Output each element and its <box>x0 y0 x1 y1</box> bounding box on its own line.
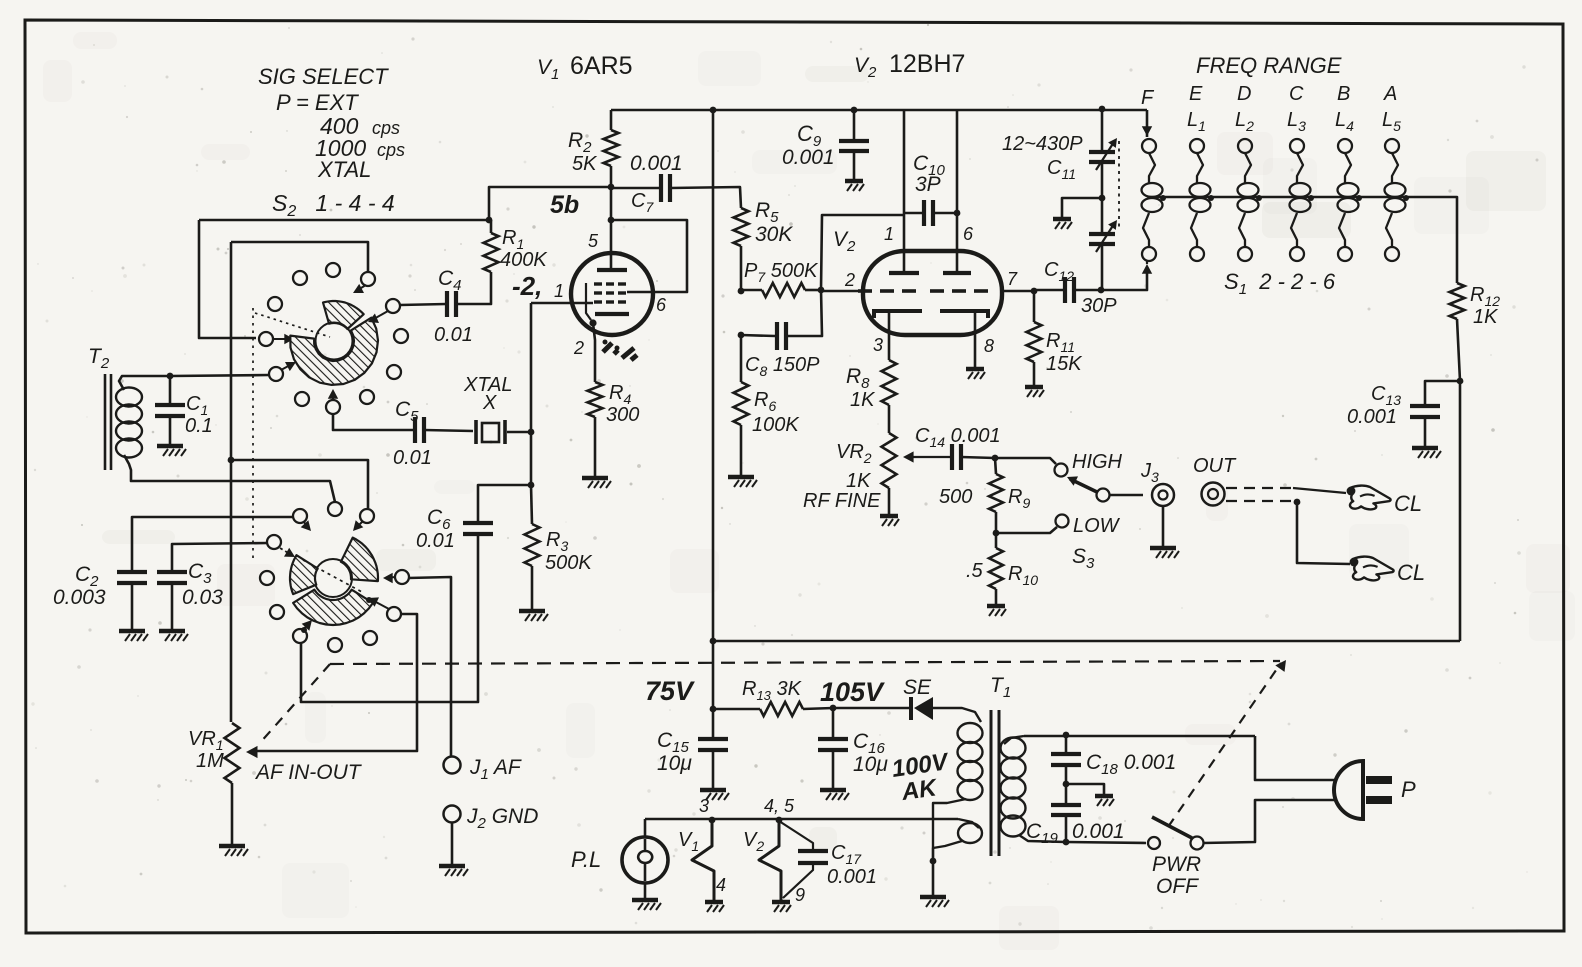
svg-text:5b: 5b <box>550 191 579 219</box>
junction <box>1256 195 1262 201</box>
tube V2 envelope <box>863 251 1002 335</box>
svg-text:1K: 1K <box>846 470 872 492</box>
svg-text:SE: SE <box>903 676 932 699</box>
V1 grid sidebar <box>586 283 591 320</box>
junction <box>709 817 716 824</box>
svg-text:3: 3 <box>699 796 709 816</box>
junction <box>1099 195 1106 202</box>
svg-text:0.001: 0.001 <box>827 866 877 888</box>
junction <box>366 597 372 603</box>
crystal XTAL X <box>474 420 478 444</box>
switch PWR OFF <box>1148 837 1160 849</box>
junction <box>608 184 615 191</box>
junction <box>710 107 717 114</box>
svg-text:12BH7: 12BH7 <box>889 50 965 78</box>
capacitor C15 10u <box>698 737 728 741</box>
T1 filament winding <box>958 819 979 828</box>
resistor R6 100K <box>740 335 743 382</box>
ground <box>1025 385 1043 390</box>
svg-text:C5: C5 <box>395 398 419 425</box>
svg-text:L3: L3 <box>1287 109 1306 134</box>
svg-text:V1: V1 <box>678 829 699 854</box>
junction <box>830 705 837 712</box>
wire pin3 <box>888 311 891 360</box>
wire heater bus <box>645 818 958 821</box>
svg-text:10μ: 10μ <box>853 753 888 776</box>
wire pin7 <box>1002 290 1034 293</box>
svg-text:R5: R5 <box>755 199 779 226</box>
svg-text:C19: C19 <box>1026 820 1059 847</box>
ground <box>157 444 183 449</box>
junction <box>1294 499 1301 506</box>
svg-text:0.01: 0.01 <box>416 530 455 552</box>
junction <box>1160 195 1166 201</box>
junction <box>1063 839 1070 846</box>
svg-text:105V: 105V <box>820 677 885 707</box>
svg-text:.5: .5 <box>966 560 984 582</box>
svg-text:7: 7 <box>1007 269 1018 289</box>
ground <box>845 179 863 184</box>
jack J2 GND <box>444 806 461 823</box>
arrows on S2 lower contacts <box>304 522 308 528</box>
svg-text:C: C <box>1289 83 1304 105</box>
svg-text:S1 2 - 2 - 6: S1 2 - 2 - 6 <box>1224 269 1336 298</box>
jack OUT <box>1202 483 1225 506</box>
svg-text:1K: 1K <box>1473 306 1499 328</box>
svg-text:10μ: 10μ <box>657 752 692 775</box>
arrows on S2 upper contacts <box>356 285 366 291</box>
svg-text:8: 8 <box>984 336 994 356</box>
svg-text:cps: cps <box>377 140 405 160</box>
svg-text:12~430P: 12~430P <box>1002 133 1083 155</box>
svg-text:R11: R11 <box>1046 330 1075 355</box>
svg-text:J1 AF: J1 AF <box>469 756 522 783</box>
wiper arrow VR2 <box>909 456 951 458</box>
svg-text:VR2: VR2 <box>836 441 872 466</box>
wire wiper AF <box>252 614 417 751</box>
wire pin8 + ground <box>974 311 977 367</box>
svg-text:C12: C12 <box>1044 259 1074 284</box>
svg-text:C18 0.001: C18 0.001 <box>1086 751 1176 778</box>
svg-text:OFF: OFF <box>1156 875 1199 898</box>
junction <box>1099 106 1106 113</box>
dotted rotor diagonal <box>303 560 362 592</box>
svg-text:6: 6 <box>656 295 667 315</box>
svg-text:500K: 500K <box>545 552 593 574</box>
svg-text:6: 6 <box>963 224 974 244</box>
ground <box>820 788 846 793</box>
junction <box>710 706 717 713</box>
wire V2 plate1 <box>903 110 906 271</box>
svg-text:X: X <box>482 392 497 414</box>
junction <box>301 627 307 633</box>
svg-text:0.001: 0.001 <box>1072 820 1125 843</box>
svg-text:2: 2 <box>573 338 584 358</box>
rotor S2 upper wedge A <box>323 301 364 329</box>
svg-text:V2: V2 <box>854 54 877 81</box>
svg-text:C6: C6 <box>427 506 451 533</box>
resistor R12 1K <box>1450 283 1465 319</box>
svg-text:J3: J3 <box>1140 460 1159 485</box>
ground <box>700 788 726 793</box>
wire out leads dashed <box>1226 487 1293 489</box>
resistor R10 .5 <box>989 548 1003 589</box>
wire bus to coil F <box>1146 110 1149 137</box>
wire T2 bottom lead <box>124 455 335 502</box>
wire secondary top <box>1024 735 1255 738</box>
junction <box>1403 195 1409 201</box>
handwritten scribble pin7 <box>603 343 637 360</box>
svg-text:C13: C13 <box>1371 383 1401 408</box>
svg-text:A: A <box>1383 83 1397 105</box>
svg-text:0.03: 0.03 <box>182 586 223 609</box>
svg-text:P7 500K: P7 500K <box>744 260 819 285</box>
svg-text:XTAL: XTAL <box>317 157 371 182</box>
svg-text:V2: V2 <box>833 228 856 255</box>
junction <box>992 455 999 462</box>
ground <box>119 629 145 634</box>
junction <box>1208 195 1214 201</box>
V2 plates <box>889 271 919 275</box>
capacitor C10 3P <box>904 212 922 215</box>
junction <box>1031 288 1038 295</box>
wire S2 feed top <box>199 219 489 222</box>
svg-text:0.01: 0.01 <box>434 324 473 346</box>
svg-text:D: D <box>1237 83 1251 105</box>
junction <box>954 210 961 217</box>
svg-text:V2: V2 <box>743 829 764 854</box>
svg-text:3: 3 <box>873 335 883 355</box>
wire secondary bottom to switch <box>1066 842 1146 843</box>
svg-text:CL: CL <box>1397 560 1425 585</box>
capacitor C3 <box>172 543 268 570</box>
resistor R13 3K <box>713 708 760 711</box>
svg-text:FREQ RANGE: FREQ RANGE <box>1196 53 1342 78</box>
svg-text:1: 1 <box>884 224 894 244</box>
junction <box>1457 378 1464 385</box>
junction <box>603 340 608 345</box>
svg-text:1K: 1K <box>850 389 876 411</box>
wire S2 left vertical <box>230 242 233 722</box>
wire coil bus <box>1149 197 1457 283</box>
jack J1 AF <box>444 757 461 774</box>
ground <box>1053 217 1071 222</box>
svg-text:T2: T2 <box>88 345 110 372</box>
svg-text:LOW: LOW <box>1073 515 1121 537</box>
ground <box>920 895 946 900</box>
svg-text:500: 500 <box>939 486 972 508</box>
svg-text:cps: cps <box>372 118 400 138</box>
ground <box>439 864 465 869</box>
junction <box>615 346 620 351</box>
wire V2 plate2 <box>956 110 959 271</box>
tube V1 envelope <box>571 253 653 335</box>
V2 cathodes <box>874 311 922 318</box>
diode SE <box>833 707 909 710</box>
resistor R8 1K <box>882 360 897 405</box>
ground <box>159 629 185 634</box>
svg-text:P = EXT: P = EXT <box>276 90 359 115</box>
svg-text:R13 3K: R13 3K <box>742 678 803 703</box>
junction <box>738 288 745 295</box>
svg-text:L2: L2 <box>1235 109 1254 134</box>
svg-text:R10: R10 <box>1008 563 1038 588</box>
ground <box>705 900 723 905</box>
ground <box>1095 794 1113 799</box>
svg-text:J2 GND: J2 GND <box>466 805 538 832</box>
svg-text:C4: C4 <box>438 267 462 294</box>
V1 plate <box>597 268 627 272</box>
junction <box>486 217 493 224</box>
capacitor C6 <box>478 485 531 521</box>
ground stub <box>1066 784 1104 794</box>
T1 primary winding <box>933 708 981 722</box>
coil L column E <box>1190 139 1204 153</box>
ground <box>772 900 790 905</box>
svg-text:0.001: 0.001 <box>782 146 835 169</box>
svg-text:R8: R8 <box>846 365 870 392</box>
junction <box>930 858 937 865</box>
svg-text:L5: L5 <box>1382 109 1401 134</box>
junction <box>167 373 174 380</box>
ground <box>880 514 898 519</box>
lamp P.L <box>644 819 647 838</box>
junction <box>1098 287 1105 294</box>
T1 secondary winding <box>1004 736 1024 744</box>
svg-text:C17: C17 <box>831 842 862 867</box>
svg-text:1: 1 <box>554 281 564 301</box>
svg-text:4: 4 <box>716 875 726 895</box>
capacitor C14 0.001 <box>950 444 954 470</box>
svg-text:30P: 30P <box>1081 295 1117 317</box>
coil L column C <box>1290 139 1304 153</box>
gang dotted line <box>252 308 254 560</box>
svg-text:1M: 1M <box>196 750 224 772</box>
clip CL 2 <box>1353 557 1394 581</box>
ground <box>632 898 658 903</box>
plug P <box>1334 761 1363 819</box>
ground <box>987 604 1005 609</box>
svg-text:400K: 400K <box>500 249 548 271</box>
svg-text:P: P <box>1401 777 1416 802</box>
junction <box>528 429 535 436</box>
svg-text:2: 2 <box>844 270 855 290</box>
svg-text:300: 300 <box>606 404 639 426</box>
svg-text:AF IN-OUT: AF IN-OUT <box>254 761 363 784</box>
svg-text:R9: R9 <box>1008 486 1030 511</box>
ground <box>1412 446 1438 451</box>
ground <box>582 476 608 481</box>
svg-text:0.001: 0.001 <box>630 152 683 175</box>
capacitor C19 0.001 <box>1051 803 1081 807</box>
svg-text:75V: 75V <box>645 676 695 706</box>
jack J3 <box>1110 494 1143 497</box>
potentiometer VR2 1K RF FINE <box>888 405 891 433</box>
arrow into S2 upper rotor <box>273 338 289 340</box>
junction <box>776 817 783 824</box>
svg-text:E: E <box>1189 83 1203 105</box>
svg-text:15K: 15K <box>1046 353 1083 375</box>
resistor R1 400K <box>484 233 499 272</box>
svg-text:S3: S3 <box>1072 545 1095 572</box>
wire bottom bus <box>713 640 1460 643</box>
wire S2 upper bracket <box>231 242 368 271</box>
svg-text:V1: V1 <box>537 56 559 83</box>
resistor R11 15K <box>1033 291 1036 322</box>
svg-text:0.01: 0.01 <box>393 447 432 469</box>
svg-text:9: 9 <box>795 885 805 905</box>
coil L column F <box>1142 139 1156 153</box>
S2 lower contacts <box>293 509 307 523</box>
svg-text:S2 1 - 4 - 4: S2 1 - 4 - 4 <box>272 190 395 220</box>
svg-text:HIGH: HIGH <box>1072 451 1123 473</box>
V1 grid dashes <box>594 282 602 285</box>
svg-text:0.001: 0.001 <box>1347 406 1397 428</box>
capacitor C5 <box>333 414 414 430</box>
rotor S2 lower wedge W <box>290 555 318 594</box>
junction <box>589 319 596 326</box>
coil L column A <box>1385 139 1399 153</box>
svg-text:SIG SELECT: SIG SELECT <box>258 64 389 89</box>
svg-text:0.003: 0.003 <box>53 586 106 609</box>
wire T2 top lead <box>119 376 170 390</box>
capacitor C2 <box>132 517 293 570</box>
wire B+ bus <box>611 109 1147 112</box>
coil L column B <box>1338 139 1352 153</box>
svg-text:R2: R2 <box>568 129 592 156</box>
svg-text:C14 0.001: C14 0.001 <box>915 425 1001 450</box>
ground <box>519 609 545 614</box>
svg-text:3P: 3P <box>915 173 941 196</box>
junction <box>818 287 825 294</box>
svg-text:0.1: 0.1 <box>185 415 213 437</box>
capacitor C7 0.001 <box>611 187 660 190</box>
junction <box>993 530 1000 537</box>
junction <box>738 332 745 339</box>
ground <box>728 475 754 480</box>
svg-text:R6: R6 <box>754 389 776 414</box>
V1 cathode <box>595 312 629 316</box>
svg-text:-2,: -2, <box>512 271 542 301</box>
rotor S2 lower wedge NE <box>341 538 378 582</box>
svg-text:P.L: P.L <box>571 847 601 872</box>
svg-text:C8 150P: C8 150P <box>745 354 820 379</box>
svg-text:C7: C7 <box>631 190 654 215</box>
ground <box>966 367 984 372</box>
S2 upper contacts <box>293 271 307 285</box>
ground <box>219 844 245 849</box>
rotor S2 upper wedge B <box>290 318 378 385</box>
junction <box>710 638 717 645</box>
svg-text:RF FINE: RF FINE <box>803 490 881 512</box>
junction <box>608 217 615 224</box>
V2 grid dashes <box>858 289 872 293</box>
wire pin1 grid <box>531 302 593 305</box>
resistor R4 300 <box>588 382 603 417</box>
svg-text:30K: 30K <box>755 223 793 246</box>
svg-text:CL: CL <box>1394 491 1422 516</box>
svg-text:100K: 100K <box>752 414 800 436</box>
dashed gang link line <box>330 661 1280 664</box>
junction <box>851 107 858 114</box>
wire contact to T2 <box>170 375 269 376</box>
capacitor C17 0.001 <box>779 821 813 849</box>
svg-text:PWR: PWR <box>1152 853 1201 876</box>
svg-text:C3: C3 <box>188 560 212 587</box>
wire C12 to coil F <box>1101 268 1147 290</box>
junction <box>1356 195 1362 201</box>
svg-text:T1: T1 <box>990 674 1011 701</box>
junction <box>528 482 535 489</box>
junction <box>1063 781 1070 788</box>
potentiometer VR1 1M <box>225 723 240 783</box>
rotor S2 lower wedge S <box>293 590 373 625</box>
svg-text:6AR5: 6AR5 <box>570 52 633 80</box>
junction <box>1308 195 1314 201</box>
svg-text:AK: AK <box>899 774 940 806</box>
svg-text:R3: R3 <box>546 529 568 554</box>
resistor R5 30K <box>734 208 749 246</box>
junction <box>1063 732 1070 739</box>
svg-text:F: F <box>1141 87 1155 109</box>
wire contact down J1 <box>408 577 451 756</box>
svg-text:L1: L1 <box>1187 109 1206 134</box>
wire pin2 cathode <box>593 323 595 382</box>
svg-text:4, 5: 4, 5 <box>764 796 795 816</box>
capacitor C4 <box>400 304 446 305</box>
ground <box>1150 546 1176 551</box>
svg-text:B: B <box>1337 83 1350 105</box>
svg-text:L4: L4 <box>1335 109 1354 134</box>
svg-text:5: 5 <box>588 231 599 251</box>
svg-text:OUT: OUT <box>1193 455 1237 477</box>
junction <box>228 457 235 464</box>
coil L column D <box>1238 139 1252 153</box>
clip CL 1 <box>1350 486 1391 510</box>
wire pin2 <box>822 290 863 293</box>
wire V2 grid bracket <box>821 215 904 290</box>
resistor R2 5K <box>610 110 613 130</box>
svg-text:C11: C11 <box>1047 157 1076 182</box>
switch S3 HIGH/LOW <box>995 458 1056 464</box>
svg-text:5K: 5K <box>572 153 598 175</box>
